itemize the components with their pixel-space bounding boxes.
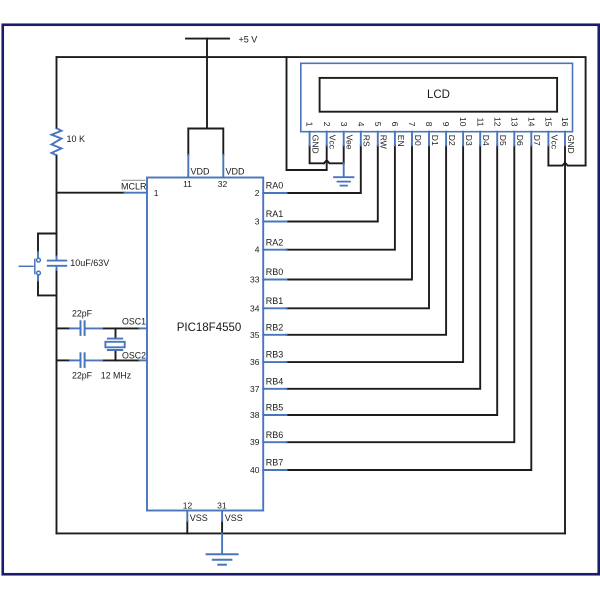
svg-text:RW: RW	[379, 135, 389, 149]
svg-text:RB5: RB5	[266, 403, 284, 413]
capacitor C1 10uF/63V plates	[47, 261, 67, 266]
svg-text:RB3: RB3	[266, 350, 284, 360]
svg-text:36: 36	[250, 357, 260, 367]
svg-text:32: 32	[218, 179, 228, 189]
lead osc1 left	[70, 327, 80, 329]
svg-text:16: 16	[560, 117, 570, 127]
wire D1-RB1	[287, 145, 430, 308]
stub OSC1	[140, 327, 148, 329]
wire RW-RA1	[287, 145, 378, 221]
wire D7-RB7	[287, 145, 532, 470]
wire D2-RB2	[287, 145, 447, 334]
svg-text:RA1: RA1	[266, 209, 284, 219]
wire top rail	[57, 57, 586, 166]
svg-text:D3: D3	[464, 135, 474, 146]
stub OSC2	[140, 359, 148, 361]
svg-text:OSC1: OSC1	[122, 317, 146, 327]
crystal X1 12MHz	[105, 339, 124, 350]
svg-text:14: 14	[526, 117, 536, 127]
svg-text:D6: D6	[515, 135, 525, 146]
svg-text:GND: GND	[566, 135, 576, 154]
svg-text:GND: GND	[311, 135, 321, 154]
wire D6-RB6	[287, 145, 515, 442]
svg-text:6: 6	[390, 122, 400, 127]
stub VDD11	[187, 155, 189, 178]
wire left rail lower	[56, 270, 58, 534]
resistor R1 10K	[52, 128, 62, 155]
lead cap10uF top	[56, 257, 58, 261]
wire VDD box	[188, 129, 223, 156]
wire VSS right lower	[221, 521, 223, 533]
svg-text:RB4: RB4	[266, 376, 284, 386]
ground symbol main	[206, 554, 239, 565]
svg-text:13: 13	[509, 117, 519, 127]
wire +5V stem	[206, 39, 208, 129]
svg-text:OSC2: OSC2	[122, 350, 146, 360]
svg-text:RB0: RB0	[266, 267, 284, 277]
svg-text:RB2: RB2	[266, 322, 284, 332]
lead button top	[37, 252, 39, 258]
LCD pin numbers rotated	[305, 117, 570, 127]
svg-text:12 MHz: 12 MHz	[101, 371, 131, 381]
LCD pin labels rotated	[311, 135, 576, 154]
wire RS-RA0	[287, 145, 361, 193]
wire bottom rail	[57, 532, 566, 534]
PIC right pin labels	[250, 181, 283, 475]
svg-text:VDD: VDD	[191, 167, 211, 177]
svg-text:D4: D4	[481, 135, 491, 146]
stub VSS12	[186, 511, 188, 522]
svg-text:11: 11	[475, 118, 485, 127]
svg-text:VSS: VSS	[190, 513, 208, 523]
svg-text:3: 3	[339, 122, 349, 127]
capacitor C3 22pF bars	[81, 352, 85, 368]
wire D0-RB0	[287, 145, 413, 279]
svg-text:Vcc: Vcc	[328, 135, 338, 150]
svg-text:2: 2	[322, 122, 332, 127]
LCD display box	[320, 78, 557, 112]
lead osc1 right	[86, 327, 102, 329]
svg-text:40: 40	[250, 465, 260, 475]
data/control wires LCD to PIC	[287, 145, 532, 470]
LCD pin stubs blue	[310, 132, 565, 146]
wire left rail mid	[56, 155, 58, 256]
lead osc2 right	[86, 359, 102, 361]
svg-text:10 K: 10 K	[67, 134, 86, 144]
svg-text:38: 38	[250, 410, 260, 420]
wire EN-RA2	[287, 145, 395, 249]
wire Vcc15 feed with hop	[548, 163, 585, 166]
svg-text:D7: D7	[532, 135, 542, 146]
svg-text:22pF: 22pF	[72, 371, 93, 381]
svg-text:PIC18F4550: PIC18F4550	[177, 322, 242, 334]
svg-text:RB7: RB7	[266, 458, 284, 468]
push button S1	[19, 258, 41, 275]
svg-text:4: 4	[356, 122, 366, 127]
svg-text:4: 4	[255, 245, 260, 255]
svg-text:RB6: RB6	[266, 430, 284, 440]
svg-text:31: 31	[217, 500, 227, 510]
svg-text:10uF/63V: 10uF/63V	[70, 258, 109, 268]
svg-text:34: 34	[250, 303, 260, 313]
wire D3-RB3	[287, 145, 464, 362]
svg-text:37: 37	[250, 384, 260, 394]
wire pin16 vertical	[564, 145, 566, 533]
svg-text:EN: EN	[396, 135, 406, 147]
wire crystal stems	[115, 328, 117, 338]
PIC pin stubs blue	[263, 193, 286, 470]
svg-text:RB1: RB1	[266, 296, 284, 306]
wire MCLR	[57, 192, 125, 194]
svg-text:D2: D2	[447, 135, 457, 146]
svg-text:RA2: RA2	[266, 237, 284, 247]
wire left rail upper	[56, 57, 58, 128]
svg-text:Vee: Vee	[345, 135, 355, 150]
svg-text:8: 8	[424, 122, 434, 127]
svg-text:MCLR: MCLR	[121, 181, 147, 191]
wire D4-RB4	[287, 145, 481, 388]
svg-text:5: 5	[373, 122, 383, 127]
svg-text:22pF: 22pF	[72, 308, 93, 318]
stub gnd stem bottom	[221, 533, 223, 553]
svg-text:11: 11	[183, 179, 192, 189]
LCD module outer box	[301, 63, 573, 131]
stub MCLR	[125, 192, 148, 194]
lead osc2 left	[70, 359, 80, 361]
wire VSS left lower	[186, 521, 188, 533]
wire pin15 vertical	[547, 145, 549, 165]
svg-text:RS: RS	[362, 135, 372, 147]
blue stubs and leads	[38, 155, 344, 554]
wire pin1-pin3 hop over pin2	[324, 160, 344, 163]
lead cap10uF bottom	[56, 266, 58, 270]
svg-text:RA0: RA0	[266, 181, 284, 191]
svg-text:VDD: VDD	[226, 167, 246, 177]
svg-text:D0: D0	[413, 135, 423, 146]
svg-text:39: 39	[250, 437, 260, 447]
wire OSC2	[57, 359, 71, 361]
svg-text:10: 10	[458, 117, 468, 127]
svg-text:12: 12	[183, 500, 193, 510]
svg-text:15: 15	[544, 117, 554, 127]
wire LCD pin3 Vee	[343, 145, 345, 163]
ground symbol LCD Vee	[333, 177, 354, 185]
svg-text:VSS: VSS	[225, 513, 243, 523]
svg-text:3: 3	[255, 217, 260, 227]
svg-text:+5 V: +5 V	[239, 34, 258, 44]
IC U1 PIC18F4550 box	[147, 178, 263, 511]
svg-text:Vcc: Vcc	[549, 135, 559, 150]
power +5V bar	[186, 38, 229, 40]
svg-text:12: 12	[492, 117, 502, 127]
wire button loop top	[38, 234, 57, 253]
lead button bottom	[37, 275, 39, 280]
svg-text:7: 7	[407, 122, 417, 127]
wire button loop bottom	[38, 281, 57, 296]
svg-text:9: 9	[441, 122, 451, 127]
wire D5-RB5	[287, 145, 498, 415]
capacitor C2 22pF bars	[81, 320, 85, 336]
wire LCD pin2 Vcc path	[287, 57, 327, 170]
svg-text:1: 1	[154, 188, 159, 198]
svg-text:1: 1	[305, 122, 315, 127]
wire LCD pin1 GND L	[310, 145, 324, 163]
wire OSC1	[57, 327, 71, 329]
stub VSS31	[221, 511, 223, 522]
svg-text:2: 2	[255, 188, 260, 198]
stub LCD gnd stem	[343, 163, 345, 176]
stub VDD32	[222, 155, 224, 178]
svg-text:D5: D5	[498, 135, 508, 146]
svg-text:33: 33	[250, 275, 260, 285]
svg-text:LCD: LCD	[427, 89, 450, 101]
svg-text:D1: D1	[430, 135, 440, 146]
svg-text:35: 35	[250, 330, 260, 340]
